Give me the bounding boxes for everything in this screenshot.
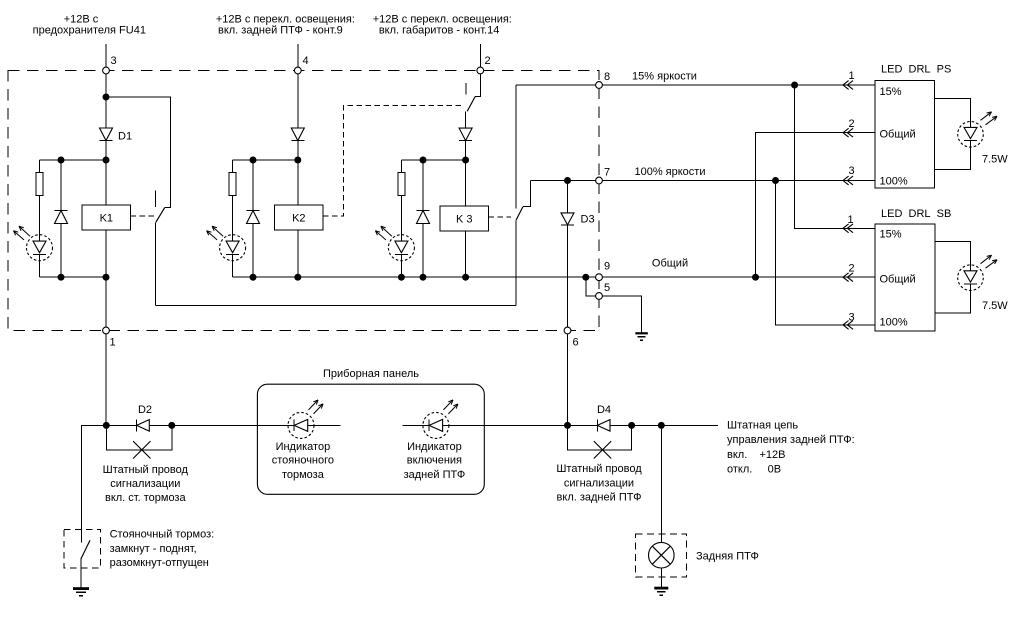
wire D3 to terminal 6 (567, 225, 569, 331)
switch contact terminal2 fixed stub (465, 83, 467, 95)
wire resistor to LED K3 (400, 196, 402, 235)
svg-text:включения: включения (407, 455, 462, 467)
terminal 8 (596, 82, 603, 89)
svg-text:15% яркости: 15% яркости (632, 71, 697, 83)
svg-text:откл. 0В: откл. 0В (727, 464, 781, 476)
svg-text:D4: D4 (597, 404, 611, 416)
wire terminal1 down (105, 331, 107, 426)
svg-text:K1: K1 (100, 213, 113, 225)
wire PS lamp bottom (935, 147, 971, 169)
svg-text:Штатный провод: Штатный провод (556, 463, 642, 475)
node junction D4 right (628, 422, 635, 429)
LED lamp SB 7.5W (958, 265, 984, 291)
node junction 15% to SB (791, 82, 798, 89)
svg-text:Индикатор: Индикатор (276, 441, 331, 453)
switch contact K1 fixed stub (154, 191, 156, 207)
series diode K3 feed (459, 128, 472, 141)
wire stub to terminal 3 (105, 44, 107, 67)
dashed box rear fog lamp (635, 534, 686, 577)
wire 15% brightness line (516, 84, 875, 86)
diode D3 (567, 181, 569, 213)
switch output arm (516, 207, 523, 221)
wire branch to K1 switch (106, 97, 171, 207)
node junction rail K3 zener (420, 274, 427, 281)
svg-text:вкл. габаритов - конт.14: вкл. габаритов - конт.14 (379, 25, 500, 37)
terminal 7 (596, 177, 603, 184)
svg-text:Общий: Общий (880, 273, 916, 285)
svg-text:8: 8 (604, 71, 610, 83)
wire zener to rail K1 (60, 224, 62, 278)
ground rear fog lamp (654, 587, 668, 590)
wire terminal2 down (475, 71, 480, 97)
node junction rail K3 led (398, 274, 405, 281)
node junction 100% D3 (564, 177, 571, 184)
node junction top K1 (103, 94, 110, 101)
node junction rail terminal5 branch (582, 274, 589, 281)
svg-text:Задняя ПТФ: Задняя ПТФ (696, 550, 759, 562)
node junction zener column K2 (250, 157, 257, 164)
terminal 3 (103, 67, 110, 74)
svg-text:вкл. задней ПТФ - конт.9: вкл. задней ПТФ - конт.9 (218, 25, 343, 37)
relay coil K1 (82, 205, 130, 230)
wire LED to rail K3 (400, 261, 402, 278)
wire PS lamp top (935, 99, 971, 122)
svg-text:Стояночный тормоз:: Стояночный тормоз: (110, 529, 215, 541)
wire resistor top K3 (400, 160, 402, 173)
wire zener top K2 (252, 160, 254, 211)
crossed-out mark D4 bypass (594, 441, 611, 458)
wire common link K1-switch to output switch (156, 305, 516, 307)
pin arrow SB 2 (843, 273, 849, 282)
svg-text:1: 1 (848, 70, 854, 82)
wire 15% to SB pin1 (795, 85, 875, 228)
protection diode K2 (247, 210, 260, 212)
wire terminal4 to diode K2 (297, 71, 299, 129)
wire stub to terminal 4 (297, 44, 299, 67)
diode D2 (136, 419, 138, 431)
wire rail to terminal 1 (105, 277, 107, 330)
svg-text:Индикатор: Индикатор (407, 441, 462, 453)
svg-text:100% яркости: 100% яркости (634, 166, 705, 178)
wire terminal5 branch (586, 277, 642, 333)
wire 15% feed to switch (515, 85, 517, 209)
pin arrow SB 3 (843, 321, 849, 330)
wire lamp to ground (660, 568, 662, 587)
protection diode K1 (55, 210, 68, 212)
pin arrow PS 2 (843, 128, 849, 137)
svg-text:Штатный провод: Штатный провод (103, 464, 189, 476)
node junction K2 left branch (294, 157, 301, 164)
dashed module enclosure (8, 71, 599, 331)
wire SB lamp bottom (935, 291, 971, 314)
dashed box parking brake switch (64, 530, 101, 568)
wire zener top K1 (60, 160, 62, 211)
svg-text:5: 5 (604, 282, 610, 294)
switch parking brake arm (81, 540, 90, 559)
svg-text:Приборная панель: Приборная панель (323, 368, 419, 380)
svg-text:LED DRL SB: LED DRL SB (881, 208, 951, 220)
wire SB lamp top (935, 242, 971, 265)
wire left branch K1 (40, 159, 107, 161)
svg-text:управления задней ПТФ:: управления задней ПТФ: (727, 434, 855, 446)
pin arrow SB 1 (843, 224, 849, 233)
svg-text:15%: 15% (880, 86, 902, 98)
node junction zener column K1 (58, 157, 65, 164)
wire K1 bottom rail (40, 276, 107, 278)
crossed-out mark D2 bypass (133, 441, 150, 458)
wire common rail (233, 276, 875, 278)
module LED DRL SB box (875, 224, 935, 331)
svg-text:D1: D1 (118, 131, 132, 143)
bypass crossed wire D4 (568, 425, 632, 450)
svg-text:вкл. +12В: вкл. +12В (727, 449, 785, 461)
svg-text:3: 3 (848, 165, 854, 177)
node junction lamp branch (658, 422, 665, 429)
wire lamp branch down (660, 425, 662, 542)
lamp rear fog (649, 542, 675, 568)
svg-text:7.5W: 7.5W (982, 154, 1008, 166)
svg-text:замкнут - поднят,: замкнут - поднят, (110, 543, 197, 555)
svg-text:4: 4 (303, 55, 309, 67)
node junction rail K2 coil (294, 274, 301, 281)
diode D4 (596, 419, 598, 431)
svg-text:сигнализации: сигнализации (564, 477, 634, 489)
resistor R K3 (398, 173, 405, 196)
switch K1 arm (156, 207, 165, 222)
svg-text:сигнализации: сигнализации (110, 478, 180, 490)
wire zener to rail K3 (422, 224, 424, 278)
svg-text:6: 6 (573, 337, 579, 349)
wire diode to K2 coil (297, 141, 299, 205)
terminal 9 (596, 274, 603, 281)
wire LED2 to D4 (449, 424, 568, 426)
svg-text:1: 1 (110, 337, 116, 349)
terminal 2 (477, 67, 484, 74)
diode D1 (100, 128, 113, 141)
wire terminal3 to D1 (105, 71, 107, 129)
relay coil K2 (275, 205, 323, 230)
LED indicator parking brake (288, 412, 314, 438)
wire left branch K2 (233, 159, 298, 161)
node junction D2 right (168, 422, 175, 429)
wire zener to rail K2 (252, 224, 254, 278)
LED indicator K1 (27, 235, 53, 261)
instrument panel box (257, 384, 484, 494)
node junction K1 left branch (103, 157, 110, 164)
node junction D4 left (564, 422, 571, 429)
dashed link K2 to terminal2 switch (323, 105, 462, 215)
node junction D2 left (103, 422, 110, 429)
wire switch output down (515, 220, 517, 305)
svg-text:предохранителя FU41: предохранителя FU41 (33, 25, 146, 37)
wire terminal6 down (567, 331, 569, 426)
svg-text:3: 3 (111, 55, 117, 67)
svg-text:2: 2 (848, 118, 854, 130)
pin arrow PS 3 (843, 176, 849, 185)
terminal 4 (294, 67, 301, 74)
node junction rail K1 zener (58, 274, 65, 281)
svg-text:разомкнут-отпущен: разомкнут-отпущен (110, 557, 209, 569)
svg-text:D2: D2 (138, 404, 152, 416)
node junction rail K3 coil (462, 274, 469, 281)
node junction zener column K3 (420, 157, 427, 164)
resistor R K2 (229, 173, 236, 196)
relay coil K3 (440, 206, 488, 231)
wire K1 coil to rail (105, 230, 107, 277)
svg-text:3: 3 (848, 312, 854, 324)
svg-text:задней ПТФ: задней ПТФ (404, 469, 466, 481)
dashed link K3 to output switch (488, 216, 511, 218)
LED indicator K3 (388, 235, 414, 261)
wire stub to terminal 2 (479, 44, 481, 67)
resistor R K1 (36, 173, 43, 196)
wire junction to D4 (568, 424, 598, 426)
dashed link K1 to switch (131, 215, 154, 217)
bypass crossed wire D2 (106, 425, 172, 450)
wire left branch K3 (401, 159, 465, 161)
wire LED to rail K1 (39, 261, 41, 278)
svg-text:15%: 15% (880, 229, 902, 241)
svg-text:9: 9 (604, 261, 610, 273)
node junction rail to PS pin2 (752, 274, 759, 281)
wire resistor to LED K1 (39, 196, 41, 235)
svg-text:тормоза: тормоза (282, 469, 325, 481)
svg-text:100%: 100% (880, 317, 908, 329)
ground parking brake (73, 587, 89, 590)
terminal 5 (596, 293, 603, 300)
series diode K2 (291, 128, 304, 141)
node junction rail K1 coil (103, 274, 110, 281)
svg-text:LED DRL PS: LED DRL PS (881, 63, 951, 75)
wire 100% to SB pin3 (776, 181, 876, 325)
svg-text:Общий: Общий (880, 128, 916, 140)
svg-text:D3: D3 (581, 214, 595, 226)
wire switch to series diode K3 (465, 111, 467, 128)
wire resistor top K1 (39, 160, 41, 173)
svg-text:вкл. задней ПТФ: вкл. задней ПТФ (557, 492, 642, 504)
node junction K3 left branch (462, 157, 469, 164)
svg-text:7: 7 (604, 167, 610, 179)
wire LED2 left stub (403, 424, 423, 426)
wire LED1 right stub (314, 424, 341, 426)
wire brake switch to ground (80, 559, 82, 588)
svg-text:1: 1 (847, 214, 853, 226)
node junction 100% to SB (772, 177, 779, 184)
svg-text:Штатная цепь: Штатная цепь (727, 419, 798, 431)
wire rail to PS pin2 (756, 133, 876, 278)
wire junction to D2 (106, 424, 136, 426)
ground at terminal 5 (635, 332, 648, 334)
wire K1 switch down (155, 222, 157, 305)
switch terminal2 arm (467, 97, 475, 112)
wire zener top K3 (422, 160, 424, 211)
pin arrow PS 1 (843, 81, 849, 90)
wire diode to K3 coil (465, 141, 467, 206)
wire resistor to LED K2 (232, 196, 234, 235)
LED indicator K2 (220, 235, 246, 261)
wire left corner to brake (82, 425, 107, 542)
wire D2 to panel LED1 (149, 424, 288, 426)
svg-text:стояночного: стояночного (272, 455, 334, 467)
wire 100% line corner (523, 181, 530, 207)
protection diode K3 (417, 210, 430, 212)
wire 100% brightness line (530, 180, 875, 182)
LED indicator rear fog (423, 412, 449, 438)
wire D1 to K1 coil (105, 141, 107, 205)
wire resistor top K2 (232, 160, 234, 173)
svg-text:2: 2 (485, 55, 491, 67)
wire K2 coil to rail (297, 230, 299, 277)
svg-text:Общий: Общий (652, 258, 688, 270)
svg-text:2: 2 (848, 262, 854, 274)
svg-text:7.5W: 7.5W (982, 300, 1008, 312)
svg-text:K2: K2 (292, 213, 305, 225)
wire D4 to line end (610, 424, 718, 426)
svg-text:вкл. ст. тормоза: вкл. ст. тормоза (105, 492, 186, 504)
terminal 1 (103, 327, 110, 334)
node junction rail K2 zener (250, 274, 257, 281)
LED lamp PS 7.5W (958, 122, 984, 148)
svg-text:K 3: K 3 (456, 214, 473, 226)
module LED DRL PS box (875, 81, 935, 189)
terminal 6 (564, 327, 571, 334)
svg-text:100%: 100% (880, 175, 908, 187)
wire LED to rail K2 (232, 261, 234, 278)
wire K3 coil to rail (465, 231, 467, 277)
